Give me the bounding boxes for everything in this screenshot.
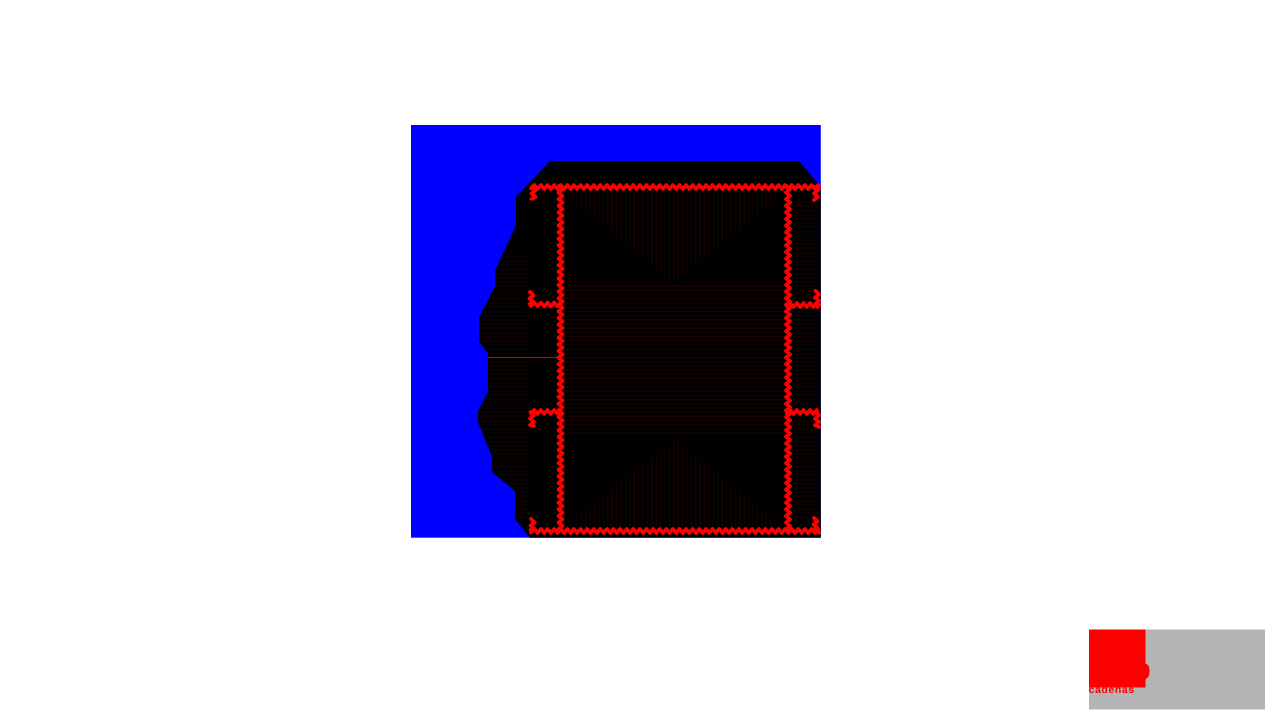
interior striation mask triangle bottom-right: [672, 436, 787, 529]
interior extrusion striations top band: [563, 191, 787, 285]
left slot lip lower: [531, 410, 561, 414]
right inner vertical: [786, 186, 790, 531]
right column striations: [790, 200, 819, 520]
left top stub: [532, 187, 536, 199]
bottom edge: [531, 529, 819, 533]
side face striations: [479, 250, 531, 530]
interior striation mask triangle top-left: [563, 191, 678, 285]
right slot lip upper: [787, 303, 818, 307]
right bottom stub: [814, 518, 818, 530]
interior extrusion striations bottom band: [563, 436, 787, 529]
interior striation mask triangle top-right: [672, 191, 787, 285]
mid-height profile waist line: [479, 357, 560, 359]
interior extrusion striations middle band: [563, 285, 787, 436]
extruded profile body silhouette: [478, 161, 821, 538]
left bottom stub: [531, 519, 535, 530]
right slot lip upper tick: [815, 291, 819, 305]
right top stub: [814, 187, 818, 200]
left slot lip lower tick: [530, 412, 534, 426]
logo arrow tip: [1146, 664, 1150, 680]
right slot lip lower tick: [815, 412, 819, 427]
right slot lip lower: [787, 410, 818, 414]
svg-text:cadenas: cadenas: [1089, 684, 1135, 696]
top edge: [531, 185, 819, 189]
logo red square: [1089, 630, 1146, 688]
left slot lip upper tick: [530, 292, 534, 304]
left slot lip upper: [531, 303, 561, 307]
CAD preview image background: [411, 125, 821, 538]
left inner vertical: [559, 186, 563, 531]
interior striation mask triangle bottom-left: [563, 436, 678, 529]
watermark logo panel: [1089, 630, 1265, 710]
